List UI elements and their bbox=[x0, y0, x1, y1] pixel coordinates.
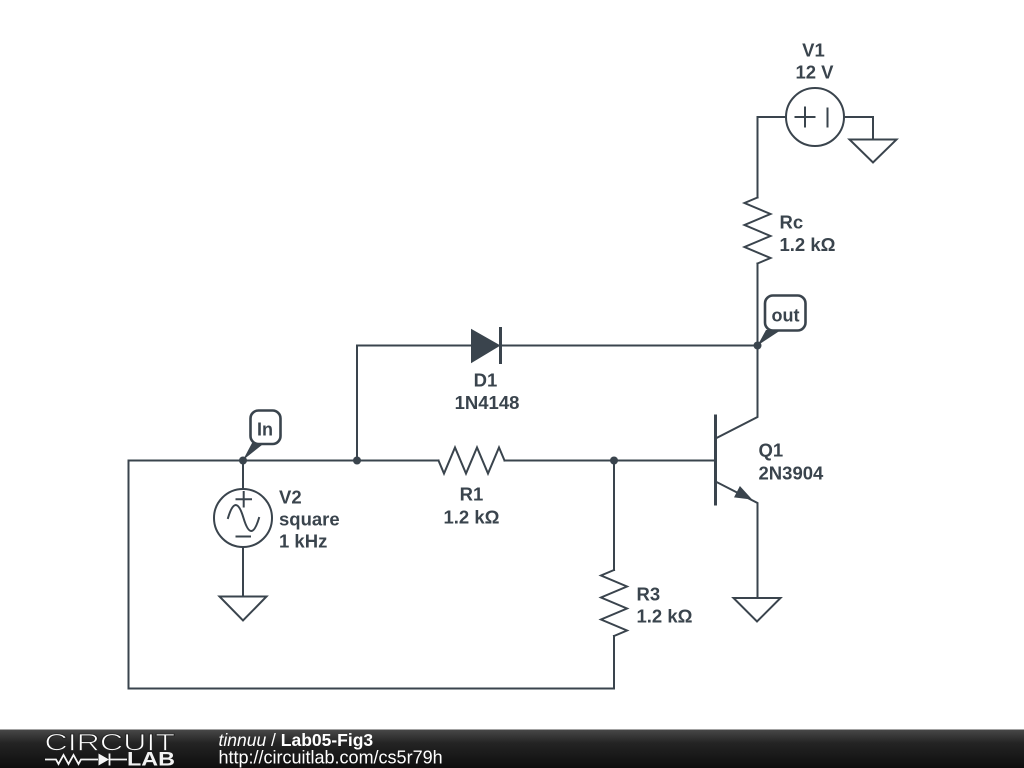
transistor Q1 emitter arrow bbox=[734, 486, 752, 500]
ground at V2 bbox=[220, 597, 267, 621]
svg-text:1N4148: 1N4148 bbox=[455, 392, 520, 413]
svg-text:R1: R1 bbox=[460, 484, 484, 505]
wire node In to diode line bbox=[356, 346, 358, 461]
wire In node down to V2 bbox=[242, 461, 244, 490]
svg-text:Q1: Q1 bbox=[759, 440, 784, 461]
svg-text:V2: V2 bbox=[279, 487, 302, 508]
diode D1 bbox=[472, 331, 499, 362]
wire V1 minus terminal to ground bbox=[844, 117, 873, 140]
resistor R1 bbox=[439, 448, 505, 474]
wire V2 to ground bbox=[242, 547, 244, 597]
svg-text:1.2 kΩ: 1.2 kΩ bbox=[780, 234, 836, 255]
svg-text:R3: R3 bbox=[637, 584, 661, 605]
svg-text:LAB: LAB bbox=[127, 750, 175, 768]
node junction dot out bbox=[754, 342, 762, 350]
transistor Q1 emitter bbox=[716, 482, 758, 599]
svg-text:1 kHz: 1 kHz bbox=[279, 531, 327, 552]
wire collector to out node bbox=[716, 346, 758, 439]
resistor Rc bbox=[745, 198, 771, 264]
footer logo squiggle bbox=[45, 754, 127, 766]
wire diode anode bbox=[357, 345, 472, 347]
wire diode cathode to out node bbox=[501, 345, 758, 347]
transistor Q1 base bar bbox=[714, 416, 717, 504]
svg-text:Rc: Rc bbox=[780, 212, 804, 233]
wire R3 top bbox=[613, 461, 615, 571]
wire left rail bbox=[128, 461, 130, 689]
svg-text:In: In bbox=[257, 420, 273, 440]
svg-text:http://circuitlab.com/cs5r79h: http://circuitlab.com/cs5r79h bbox=[219, 748, 443, 768]
ground at V1 bbox=[850, 140, 897, 163]
svg-text:out: out bbox=[772, 306, 800, 326]
wire R3 bottom to rail bbox=[613, 636, 615, 689]
node junction dot diode branch bbox=[353, 457, 361, 465]
wire R1 to base bbox=[505, 460, 716, 462]
voltage source V2 bbox=[214, 489, 272, 547]
svg-text:V1: V1 bbox=[802, 40, 825, 61]
voltage source V1 bbox=[786, 88, 844, 146]
wire Rc bottom to out node bbox=[757, 264, 759, 346]
node junction dot In bbox=[239, 457, 247, 465]
resistor R3 bbox=[601, 570, 627, 636]
wire V1 plus terminal to Rc top bbox=[758, 117, 787, 198]
svg-text:1.2 kΩ: 1.2 kΩ bbox=[637, 606, 693, 627]
node junction dot R3 branch bbox=[610, 457, 618, 465]
node label In bbox=[243, 411, 281, 461]
wire base rail left segment bbox=[129, 460, 439, 462]
wire bottom rail bbox=[129, 688, 615, 690]
ground at Q1 emitter bbox=[734, 598, 781, 622]
svg-text:square: square bbox=[279, 509, 340, 530]
footer bar bbox=[0, 730, 1024, 768]
node label out bbox=[758, 296, 806, 346]
svg-text:D1: D1 bbox=[474, 370, 498, 391]
svg-text:1.2 kΩ: 1.2 kΩ bbox=[444, 507, 500, 528]
svg-text:2N3904: 2N3904 bbox=[759, 463, 825, 484]
svg-text:12 V: 12 V bbox=[795, 62, 834, 83]
